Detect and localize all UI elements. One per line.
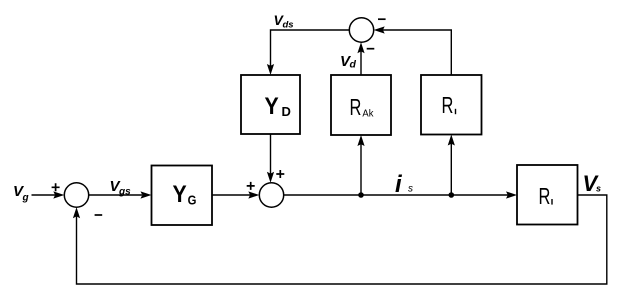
block Y_G <box>152 166 213 226</box>
block R_l (bottom) <box>517 165 578 225</box>
block R_Ak <box>331 75 391 135</box>
label v_ds <box>274 12 294 31</box>
svg-text:Ak: Ak <box>362 108 373 120</box>
block Y_D <box>241 75 300 134</box>
label v_d <box>340 53 357 71</box>
block R_l (top) <box>421 75 482 135</box>
summing junction S2 (after Y_G) <box>259 183 283 207</box>
svg-text:i: i <box>395 171 403 198</box>
label minus at S1 feedback <box>95 214 103 216</box>
label plus at S1 <box>52 183 60 191</box>
wire R_Ak to S3 (v_d) <box>357 42 364 75</box>
wire v_g input to S1 <box>32 191 65 198</box>
svg-text:Y: Y <box>265 92 279 120</box>
svg-text:D: D <box>282 104 291 119</box>
svg-text:ds: ds <box>283 20 294 31</box>
svg-text:R: R <box>350 95 362 120</box>
wire S2 to R_l (bottom), main i_s line <box>284 191 517 198</box>
junction node on i_s line (to R_l top) <box>449 192 455 198</box>
label minus at S3 bottom <box>367 48 375 50</box>
label V_s <box>583 171 602 196</box>
label plus at S2 top <box>276 170 284 178</box>
wire S1 to Y_G <box>89 191 152 198</box>
label plus at S2 left <box>247 182 255 190</box>
label v_gs <box>110 178 132 198</box>
wire Y_D to S2 <box>267 134 274 183</box>
wire Y_G to S2 <box>212 191 259 198</box>
wire junction up to R_Ak <box>357 135 364 195</box>
svg-text:R: R <box>539 184 551 209</box>
svg-text:G: G <box>188 193 197 208</box>
svg-text:d: d <box>350 59 357 71</box>
junction node on i_s line (to R_Ak) <box>358 192 364 198</box>
label v_g <box>13 183 29 204</box>
svg-text:Y: Y <box>173 180 187 208</box>
wire S3 to Y_D (v_ds) <box>267 30 349 75</box>
svg-text:gs: gs <box>118 187 131 198</box>
svg-text:g: g <box>22 193 29 204</box>
label i_s <box>395 171 413 198</box>
wire junction up to R_l top <box>448 135 455 196</box>
summing junction S1 (input) <box>64 183 88 207</box>
svg-text:R: R <box>442 93 454 118</box>
wire feedback R_l bottom output to S1 <box>73 195 607 284</box>
label minus at S3 right <box>378 18 386 20</box>
wire R_l top to S3 <box>374 26 452 75</box>
svg-text:s: s <box>596 184 601 194</box>
svg-text:s: s <box>408 184 413 195</box>
summing junction S3 (top) <box>349 18 373 42</box>
